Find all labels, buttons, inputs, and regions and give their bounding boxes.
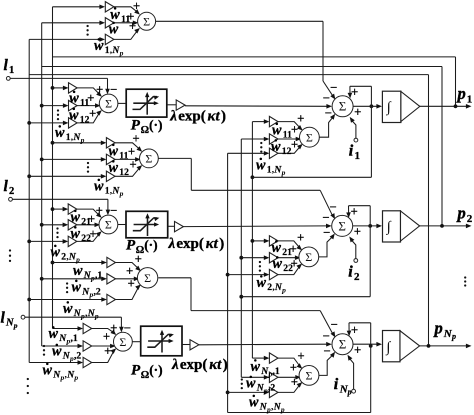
- amplifier B1-3: [69, 118, 78, 128]
- amplifier C1-2: [269, 134, 278, 144]
- label w1Np (B1): [55, 125, 85, 144]
- svg-text:Σ: Σ: [105, 97, 112, 111]
- node i2 terminal: [349, 237, 357, 263]
- amplifier B2-3: [68, 236, 77, 246]
- wire B2 amp2 to sum: [77, 223, 100, 228]
- sign + A1 c: [129, 19, 136, 33]
- svg-text:exp(: exp(: [176, 236, 204, 252]
- svg-text:p: p: [119, 48, 124, 57]
- svg-text:Σ: Σ: [339, 99, 347, 114]
- svg-text:−: −: [331, 318, 338, 332]
- svg-text:p: p: [451, 332, 456, 341]
- dots C3: [241, 378, 243, 389]
- svg-text:κt: κt: [209, 357, 222, 373]
- label w11 (A2): [109, 144, 129, 162]
- svg-text:+: +: [129, 19, 136, 33]
- svg-text:Ω: Ω: [141, 370, 149, 381]
- label lambda-exp 3: [171, 357, 228, 373]
- dots A2: [87, 162, 89, 173]
- summer sumA1: [138, 12, 156, 30]
- wire A1 amp3 to sum: [114, 28, 140, 39]
- label w22 (C2): [273, 256, 294, 274]
- dots bottom-left margin: [27, 378, 29, 394]
- wire B2 amp3 to sum: [77, 231, 102, 241]
- label wNp2 (B3): [52, 344, 81, 363]
- amplifier A2-2: [106, 154, 115, 164]
- projection icon P3: [147, 330, 174, 353]
- wire p1 feedback vertical: [455, 57, 457, 106]
- svg-text:l: l: [4, 57, 9, 74]
- svg-text:+: +: [96, 83, 103, 97]
- svg-text:−: −: [323, 226, 330, 240]
- svg-text:i: i: [348, 264, 353, 281]
- wire sum3 to integrator: [353, 342, 382, 347]
- label w21 (B2): [71, 210, 92, 228]
- wire feed B1 amp2: [40, 103, 69, 108]
- sign + A2 a: [132, 131, 139, 145]
- wire feed A3 amp3: [27, 297, 107, 302]
- svg-text:+: +: [88, 212, 95, 226]
- label w1Np (A1): [94, 38, 124, 57]
- output amplifier 3: [400, 331, 420, 361]
- wire left vertical bus 2: [41, 23, 43, 346]
- amplifier A2-3: [106, 171, 115, 181]
- wire feed B1 amp3: [27, 121, 68, 126]
- wire pNp carrier vertical: [226, 151, 270, 413]
- wire p1 output: [420, 104, 472, 109]
- amplifier C1-1: [269, 116, 278, 126]
- node l2 input terminal: [9, 197, 111, 215]
- label lambda-exp 1: [169, 109, 226, 125]
- sign + A1 a: [133, 0, 140, 13]
- svg-text:Σ: Σ: [119, 335, 126, 349]
- label w21 (C2): [272, 240, 293, 258]
- label w2Np (C2): [257, 275, 287, 294]
- sign - sum2 loopA: [329, 200, 336, 214]
- projection box P3: [141, 326, 182, 356]
- wire C2 amp3 to sum: [278, 264, 302, 275]
- projection box P2: [126, 211, 168, 238]
- label w11 (A1): [110, 7, 130, 25]
- sign + C2 c: [291, 256, 298, 270]
- wire feed B3 amp1: [53, 326, 84, 331]
- label w12 (B1): [69, 108, 90, 126]
- sign + A1 b: [127, 10, 134, 24]
- sign + C1 c: [291, 138, 298, 152]
- svg-text:,2: ,2: [74, 351, 81, 362]
- projection icon P2: [133, 213, 160, 236]
- sign + B3 b: [103, 330, 110, 344]
- svg-text:+: +: [351, 205, 358, 219]
- amplifier B3-1: [83, 323, 92, 333]
- svg-text:i: i: [349, 143, 354, 160]
- svg-text:Σ: Σ: [145, 152, 152, 166]
- label P_Omega 3: [131, 363, 163, 381]
- svg-text:+: +: [110, 321, 117, 335]
- label i2: [348, 264, 360, 283]
- summer sum2 (big): [332, 215, 353, 236]
- integrator box 3: [383, 331, 401, 362]
- svg-text:−: −: [323, 91, 330, 105]
- sign + A3 a: [135, 252, 142, 266]
- projection box P1: [126, 89, 167, 117]
- svg-text:+: +: [103, 330, 110, 344]
- sign - sum1 exp: [323, 91, 330, 105]
- svg-text:Σ: Σ: [143, 14, 150, 28]
- svg-text:+: +: [132, 131, 139, 145]
- wire C3 amp1 to sum: [278, 358, 302, 369]
- svg-text:p: p: [456, 84, 466, 103]
- wire p2 feedback vertical: [441, 67, 443, 226]
- svg-text:i: i: [334, 376, 339, 393]
- wire feed B2 amp3: [27, 239, 68, 244]
- sign + C3 c: [291, 375, 298, 389]
- wire B3 amp3 to sum: [92, 348, 117, 362]
- svg-text:p: p: [119, 189, 124, 198]
- label w2Np (B2): [51, 245, 81, 264]
- wire sumC3 to sum3: [319, 352, 335, 376]
- wire p2 carrier vertical: [239, 137, 269, 380]
- sign + C3 a: [297, 349, 304, 363]
- label w1Np (C1): [256, 158, 286, 177]
- wire B2 amp1 to sum: [77, 209, 102, 218]
- dots B1: [57, 109, 59, 120]
- wire sumA2 loop to sum2: [158, 158, 335, 219]
- sign + C1 a: [297, 111, 304, 125]
- dots left margin: [9, 249, 11, 262]
- wire B1 amp2 to sum: [77, 103, 101, 108]
- wire sumA1 loop to sum1: [156, 21, 336, 99]
- svg-text:1: 1: [355, 150, 361, 162]
- label P_Omega 2: [126, 238, 158, 256]
- svg-text:p: p: [347, 388, 352, 397]
- sign - sum3 C: [323, 344, 330, 358]
- summer sumA3: [137, 268, 157, 288]
- wire C2 amp1 to sum: [278, 241, 302, 250]
- wire p1 feedback bus: [53, 56, 456, 58]
- svg-text:+: +: [354, 105, 361, 119]
- wire feed B2 amp2: [40, 223, 68, 228]
- label wNp2 (A3): [72, 280, 101, 299]
- sign - B3 hook: [124, 321, 131, 335]
- svg-text:N: N: [5, 318, 14, 329]
- wire feed A2 amp3: [27, 174, 106, 179]
- svg-text:Σ: Σ: [338, 218, 346, 233]
- dots right margin: [464, 276, 466, 286]
- label wNp2 (C3): [246, 376, 275, 395]
- svg-text:+: +: [291, 138, 298, 152]
- label i1: [349, 143, 360, 162]
- svg-text:+: +: [290, 360, 297, 374]
- label w (A1): [109, 22, 119, 38]
- amplifier B1-2: [69, 100, 78, 110]
- integrator box 1: [382, 91, 401, 122]
- svg-text:−: −: [322, 211, 329, 225]
- sign + B1 b: [87, 91, 94, 105]
- wire C1 amp1 to sum: [278, 122, 303, 131]
- svg-text:w: w: [73, 263, 83, 279]
- label p1: [456, 84, 473, 105]
- sign + sum1 i: [354, 105, 361, 119]
- wire P1 to exp amp: [167, 104, 176, 106]
- svg-text:P: P: [126, 238, 136, 254]
- integrator box 2: [383, 211, 401, 242]
- svg-text:+: +: [354, 343, 361, 357]
- svg-text:,2: ,2: [94, 287, 101, 298]
- dots C2: [259, 261, 261, 272]
- svg-text:−: −: [329, 200, 336, 214]
- svg-text:+: +: [129, 158, 136, 172]
- wire sum2 self-feedback loop: [241, 206, 372, 297]
- wire left vertical bus 1: [52, 7, 54, 329]
- svg-text:1: 1: [467, 93, 473, 105]
- label lNp: [1, 310, 18, 330]
- wire A2 amp2 to sum: [115, 157, 141, 162]
- wire sumB3 to P3: [132, 341, 140, 343]
- svg-text:−: −: [124, 321, 131, 335]
- svg-text:+: +: [351, 323, 358, 337]
- svg-text:p: p: [281, 168, 286, 177]
- svg-text:p: p: [433, 319, 443, 338]
- wire feed B1 amp1: [51, 86, 69, 91]
- svg-text:2: 2: [9, 186, 14, 197]
- label wNpNp (C3): [249, 395, 285, 414]
- summer sumB1: [99, 94, 118, 113]
- wire C1 amp2 to sum: [278, 137, 301, 142]
- svg-text:λ: λ: [168, 236, 176, 252]
- wire A2 amp3 to sum: [115, 165, 142, 176]
- sign + C2 b: [290, 242, 297, 256]
- amplifier exp1: [176, 100, 185, 110]
- node l1 input terminal: [6, 77, 109, 95]
- svg-text:+: +: [96, 203, 103, 217]
- svg-text:): ): [221, 109, 226, 125]
- label w11 (C1): [272, 123, 292, 141]
- wire feed A1 amp1: [53, 5, 106, 10]
- node iNp terminal: [348, 355, 356, 393]
- sign + B1 hook: [96, 83, 103, 97]
- sign - sum1 loopA: [330, 81, 337, 95]
- wire p2 output: [419, 224, 472, 229]
- label wNpNp (A3): [63, 301, 99, 320]
- svg-text:): ): [223, 357, 228, 373]
- wire C3 amp2 to sum: [278, 375, 301, 380]
- sign + sum1 self: [351, 85, 358, 99]
- summer sum3 (big): [332, 334, 353, 355]
- wire pNp output: [420, 344, 472, 349]
- dots A1: [86, 25, 88, 36]
- svg-text:(·): (·): [149, 363, 163, 378]
- summer sumB3: [114, 332, 133, 351]
- svg-text:p: p: [281, 285, 286, 294]
- dots B2: [56, 227, 58, 238]
- label w11 (B1): [69, 91, 89, 109]
- amplifier C1-3: [269, 148, 278, 158]
- svg-text:+: +: [135, 252, 142, 266]
- wire sumC2 to sum2: [319, 234, 335, 257]
- wire B1 amp3 to sum: [77, 110, 102, 123]
- svg-text:κt: κt: [208, 109, 221, 125]
- wire sumA3 loop to sum3: [158, 278, 335, 338]
- wire A3 amp3 to sum: [116, 285, 141, 300]
- svg-text:+: +: [89, 106, 96, 120]
- wire sum2 to integrator: [353, 224, 382, 229]
- amplifier B2-2: [68, 220, 77, 230]
- svg-text:+: +: [297, 111, 304, 125]
- wire p1 carrier vertical: [251, 119, 270, 360]
- svg-text:12: 12: [119, 167, 129, 178]
- svg-text:+: +: [291, 122, 298, 136]
- label pNp: [433, 319, 457, 342]
- svg-text:−: −: [110, 83, 117, 97]
- svg-text:+: +: [351, 85, 358, 99]
- amplifier exp3: [190, 340, 199, 350]
- svg-text:Σ: Σ: [306, 369, 313, 383]
- label wNp1 (C3): [251, 359, 280, 378]
- sign - B1 hook: [110, 83, 117, 97]
- wire C3 amp3 to sum: [278, 382, 302, 392]
- amplifier exp2: [175, 221, 184, 231]
- amplifier B2-1: [68, 204, 77, 214]
- wire sum1 to integrator: [353, 104, 382, 109]
- output amplifier 1: [401, 92, 420, 122]
- label w22 (B2): [71, 226, 92, 244]
- wire feed A3 amp2: [40, 277, 107, 282]
- svg-text:p: p: [13, 321, 18, 330]
- svg-text:(·): (·): [144, 238, 158, 253]
- svg-text:+: +: [87, 91, 94, 105]
- sign + sum3 self: [351, 323, 358, 337]
- wire feed A2 amp1: [51, 141, 107, 146]
- svg-text:p: p: [280, 405, 285, 414]
- sign - sum3 loopA: [331, 318, 338, 332]
- sign + B2 b: [88, 212, 95, 226]
- sign + C3 b: [290, 360, 297, 374]
- wire feed B2 amp1: [51, 207, 69, 212]
- sign + B2 hook: [96, 203, 103, 217]
- svg-text:+: +: [128, 145, 135, 159]
- summer sumA2: [140, 149, 159, 168]
- svg-text:+: +: [290, 242, 297, 256]
- sign + A2 b: [128, 145, 135, 159]
- svg-text:−: −: [110, 203, 117, 217]
- svg-text:−: −: [323, 329, 330, 343]
- wire P3 to exp amp: [182, 344, 190, 346]
- wire pNp feedback vertical: [428, 75, 430, 346]
- label p2: [456, 204, 473, 225]
- amplifier C3-1: [269, 353, 278, 363]
- svg-text:λ: λ: [169, 109, 177, 125]
- wire pNp feedback bus: [29, 74, 428, 76]
- svg-text:,1: ,1: [71, 333, 78, 344]
- wire feed A2 amp2: [40, 157, 107, 162]
- amplifier C3-3: [269, 387, 278, 397]
- wire feed B3 amp2: [42, 344, 83, 349]
- wire P2 to exp amp: [168, 225, 175, 227]
- svg-text:+: +: [354, 225, 361, 239]
- svg-text:+: +: [297, 231, 304, 245]
- amplifier C3-2: [269, 372, 278, 382]
- sign - sum3 exp: [323, 329, 330, 343]
- svg-text:Σ: Σ: [305, 250, 312, 264]
- projection icon P1: [133, 92, 160, 115]
- svg-text:p: p: [73, 373, 78, 382]
- label iNp: [334, 376, 352, 397]
- label lambda-exp 2: [168, 236, 225, 252]
- label w12 (C1): [271, 139, 292, 157]
- amplifier A1-3: [105, 34, 114, 44]
- summer sumC2: [299, 247, 319, 267]
- label P_Omega 1: [131, 118, 163, 136]
- sign + C1 b: [291, 122, 298, 136]
- dots A3: [66, 282, 68, 293]
- wire sumC1 to sum1: [319, 114, 335, 137]
- svg-text:,1: ,1: [95, 270, 102, 281]
- svg-text:+: +: [291, 256, 298, 270]
- node i1 terminal: [350, 117, 358, 142]
- wire A3 amp1 to sum: [116, 263, 141, 272]
- dots C1: [260, 142, 262, 153]
- svg-text:−: −: [330, 81, 337, 95]
- svg-text:l: l: [4, 178, 9, 195]
- amplifier A1-2: [105, 18, 114, 28]
- wire A2 amp1 to sum: [115, 143, 142, 152]
- amplifier B1-1: [69, 83, 78, 93]
- wire sum3 self-feedback loop: [228, 323, 373, 413]
- wire A3 amp2 to sum: [116, 277, 140, 282]
- amplifier A3-3: [107, 294, 116, 304]
- wire p2 feedback bus: [42, 66, 442, 68]
- sign + C2 a: [297, 231, 304, 245]
- wire feed A1 amp3: [29, 37, 105, 42]
- svg-text:p: p: [80, 135, 85, 144]
- sign + B3 c: [104, 344, 111, 358]
- svg-text:Σ: Σ: [339, 337, 347, 352]
- label wNp1 (B3): [49, 326, 78, 345]
- wire exp3 to sum3: [199, 342, 332, 347]
- summer sum1 (big): [332, 96, 353, 117]
- svg-text:−: −: [323, 344, 330, 358]
- svg-text:+: +: [291, 375, 298, 389]
- label w1Np (A2): [94, 179, 124, 198]
- svg-text:+: +: [128, 277, 135, 291]
- dots B3: [43, 345, 45, 356]
- amplifier C2-2: [269, 253, 278, 263]
- amplifier A2-1: [106, 138, 115, 148]
- sign - sum1 C: [325, 106, 332, 120]
- sign + B3 hook: [110, 321, 117, 335]
- svg-text:λ: λ: [171, 357, 179, 373]
- amplifier C2-3: [269, 269, 278, 279]
- amplifier A3-1: [107, 257, 116, 267]
- svg-text:p: p: [94, 311, 99, 320]
- sign + sum3 i: [354, 343, 361, 357]
- label w12 (A2): [109, 160, 130, 178]
- svg-text:,2: ,2: [268, 383, 275, 394]
- label l1: [4, 57, 15, 76]
- sign + sum2 self: [351, 205, 358, 219]
- svg-text:(·): (·): [149, 118, 163, 133]
- sign + B1 c: [89, 106, 96, 120]
- label wNpNp (B3): [43, 363, 79, 382]
- svg-text:,1: ,1: [273, 366, 280, 377]
- amplifier A1-1: [105, 2, 114, 12]
- wire sumB1 to P1: [118, 102, 126, 104]
- svg-text:exp(: exp(: [178, 109, 206, 125]
- svg-text:exp(: exp(: [180, 357, 208, 373]
- wire feed A3 amp1: [51, 260, 107, 265]
- sign + A3 b: [126, 264, 133, 278]
